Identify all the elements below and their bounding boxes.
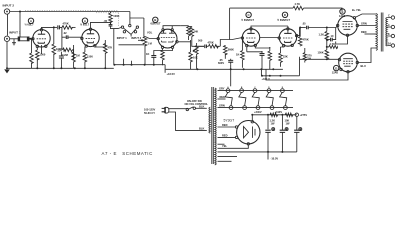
output terminals <box>391 16 394 19</box>
resistor R13 47K <box>95 40 107 68</box>
tube V4 12A6 output <box>337 16 359 37</box>
wire D' plate BLU <box>359 48 376 63</box>
svg-text:E: E <box>341 10 343 14</box>
svg-text:+275V: +275V <box>300 113 308 117</box>
node 310 <box>267 114 269 116</box>
svg-text:5Y3GT: 5Y3GT <box>224 119 235 123</box>
svg-text:25V 20: 25V 20 <box>58 49 67 53</box>
node plate A1 <box>53 26 55 28</box>
transformer stub y144 <box>218 143 225 145</box>
transformer bottom stub 2 <box>218 160 232 162</box>
wire tube E cathode <box>336 37 348 45</box>
svg-text:ON VOL CONTROL: ON VOL CONTROL <box>185 102 209 106</box>
svg-text:1K: 1K <box>146 52 149 56</box>
svg-text:470K: 470K <box>63 22 69 26</box>
svg-text:BLK: BLK <box>199 127 204 131</box>
svg-text:RED: RED <box>222 134 228 138</box>
wire plate A2 up <box>91 22 111 28</box>
svg-text:10K: 10K <box>193 56 198 60</box>
wire transformer to plate 2 <box>218 136 236 138</box>
heater unit B twisted pair <box>239 92 246 106</box>
resistor R16 <box>255 47 271 69</box>
svg-text:470K: 470K <box>303 38 309 42</box>
heater top rail <box>218 90 294 92</box>
coupling line to tube E <box>300 27 306 29</box>
svg-text:600V: 600V <box>218 61 224 65</box>
heater unit D twisted pair <box>266 92 273 106</box>
filter cap 1 <box>265 115 274 152</box>
svg-text:YEL: YEL <box>222 144 227 148</box>
wire junction to grid <box>30 38 33 40</box>
tube V5 12A6 output <box>338 53 358 73</box>
resistor R11 plate load 2 <box>189 27 194 40</box>
wire D plate top <box>287 26 289 28</box>
resistor R8 cathode A2 <box>83 47 87 69</box>
circled A <box>28 18 33 23</box>
svg-text:47K: 47K <box>108 46 113 50</box>
svg-text:4.7K: 4.7K <box>330 42 336 46</box>
wire plate tube A1 up <box>42 27 54 28</box>
wire plate resistor to coupling <box>192 40 204 47</box>
heater unit C top terminal <box>253 87 257 93</box>
feedback vertical <box>229 8 231 39</box>
circled E <box>340 9 345 14</box>
coupling cap C5 <box>197 45 208 49</box>
mid bus dots <box>113 64 115 66</box>
wire jack2 down <box>7 14 9 35</box>
node B+ <box>251 114 253 116</box>
hum pot <box>193 43 198 69</box>
phase out line to D' grid <box>297 27 300 35</box>
tube V1b triode <box>81 28 100 47</box>
svg-text:INPUT 2: INPUT 2 <box>131 36 142 40</box>
ground stub input 1 <box>12 39 16 45</box>
vertical B+ right <box>299 57 301 76</box>
heater unit E bottom terminal <box>284 106 288 110</box>
svg-text:GRN: GRN <box>361 21 367 25</box>
heater unit C bottom terminal <box>256 106 260 110</box>
wire plates V2 up <box>163 26 180 29</box>
wire B+ from rectifier <box>252 115 296 121</box>
wire CT RED <box>365 33 377 35</box>
heater unit A twisted pair <box>225 92 232 106</box>
resistor R9 plate load A2 <box>109 12 113 25</box>
right ground bus <box>166 68 283 70</box>
svg-text:1W: 1W <box>286 122 290 126</box>
heater unit A bottom terminal <box>229 106 233 110</box>
circled A second <box>82 18 87 23</box>
svg-text:1500: 1500 <box>40 53 46 57</box>
heater bottom rail <box>218 107 294 109</box>
capacitor C3 cathode bypass <box>42 45 64 68</box>
transformer bottom lead <box>218 155 238 157</box>
resistor 270 ohm <box>303 48 306 63</box>
filter resistor R20 <box>285 113 293 117</box>
ground return rail <box>218 151 297 153</box>
shield dashed line <box>25 9 119 11</box>
circled D second <box>334 65 339 70</box>
svg-text:BLU: BLU <box>361 64 366 68</box>
svg-text:1M: 1M <box>76 54 80 58</box>
node input2 junction <box>19 11 21 13</box>
svg-text:½ 6SL7: ½ 6SL7 <box>25 23 35 27</box>
wire to B plus line <box>113 29 115 65</box>
circled C <box>246 12 251 17</box>
heater unit C twisted pair <box>252 92 259 106</box>
svg-text:1.2K: 1.2K <box>319 33 325 37</box>
wire rectifier filament <box>218 145 249 148</box>
resistor R1 series input <box>10 37 31 42</box>
primary winding <box>376 14 377 51</box>
svg-text:100K: 100K <box>113 14 119 18</box>
rail dots <box>267 151 269 153</box>
right bus dots <box>196 68 198 70</box>
svg-text:RED: RED <box>222 123 228 127</box>
heater unit A top terminal <box>226 86 230 93</box>
svg-text:1W: 1W <box>307 57 311 61</box>
resistor R14 470K <box>208 45 220 49</box>
wire down to cap <box>61 27 63 49</box>
svg-text:500: 500 <box>198 39 203 43</box>
svg-text:½ 6SL7: ½ 6SL7 <box>80 23 90 27</box>
resistor R4 470K <box>62 26 76 30</box>
resistor R15 560K <box>224 45 228 58</box>
svg-text:-10.5V: -10.5V <box>271 157 279 161</box>
selector switch contacts <box>121 24 138 36</box>
B plus line 340 <box>261 69 299 76</box>
svg-text:INPUT 1: INPUT 1 <box>117 36 128 40</box>
resistor R3 plate load A1 <box>52 27 56 68</box>
filter resistor R19 <box>270 113 278 117</box>
switch feed wires and box <box>119 12 145 45</box>
cap C7 <box>247 47 265 70</box>
resistor R17 <box>279 47 284 67</box>
filter cap 2 <box>280 115 288 152</box>
tube V3a phase inverter <box>241 28 260 47</box>
heater unit E twisted pair <box>280 92 287 106</box>
core <box>212 87 214 164</box>
wire to D' grid <box>300 58 340 60</box>
power transformer T1 <box>209 87 216 165</box>
wire switch ground <box>124 59 132 65</box>
svg-text:1 M: 1 M <box>148 42 152 46</box>
wire input2 to switch <box>10 11 130 13</box>
feedback line top <box>230 7 293 9</box>
jack J1 input 1 <box>4 36 9 41</box>
capacitor C8 <box>307 26 338 30</box>
node mid <box>281 114 283 116</box>
svg-text:B+ YEL: B+ YEL <box>352 8 362 12</box>
filter cap 3 <box>294 117 302 152</box>
svg-text:.02: .02 <box>63 31 67 35</box>
wire primary top <box>355 14 376 18</box>
capacitor C1 coupling <box>54 25 62 29</box>
svg-text:470K: 470K <box>208 41 214 45</box>
capacitor C2 coupling to grid A2 <box>62 35 82 39</box>
svg-text:A7 - E SCHEMATIC: A7 - E SCHEMATIC <box>102 151 153 156</box>
wire transformer to plate 1 <box>218 126 236 128</box>
wire 2.2M to ground bus <box>72 50 74 60</box>
svg-text:RED: RED <box>361 30 367 34</box>
svg-text:½ 6SN7GT: ½ 6SN7GT <box>241 18 254 22</box>
wire down to heater chart <box>230 65 232 87</box>
resistor R12 <box>189 40 193 69</box>
svg-text:+340V: +340V <box>254 110 262 114</box>
svg-text:4.7K: 4.7K <box>295 2 301 6</box>
svg-text:1W: 1W <box>271 122 275 126</box>
svg-text:560K: 560K <box>228 48 234 52</box>
resistor R5 2.2M <box>63 48 73 52</box>
bias tap stub <box>267 152 269 160</box>
wire plug bottom <box>169 112 207 130</box>
bus junction dots <box>36 67 38 69</box>
core <box>381 13 383 52</box>
rectifier tube V6 5Y3GT <box>235 121 260 146</box>
grid bias network tubes E D' <box>325 27 337 60</box>
svg-text:24K: 24K <box>194 30 199 34</box>
node grid junction tube A1 <box>29 38 31 40</box>
svg-text:150K: 150K <box>318 51 324 55</box>
heater unit D bottom terminal <box>270 106 274 110</box>
transformer stub y99 <box>218 98 226 100</box>
resistor R7 <box>72 45 76 68</box>
circled B <box>153 17 158 22</box>
svg-text:BLK: BLK <box>199 104 204 108</box>
svg-text:VOL: VOL <box>147 31 153 35</box>
svg-text:1K: 1K <box>236 53 239 57</box>
svg-text:105-125V: 105-125V <box>144 107 156 111</box>
wire tube B right pin <box>178 41 191 43</box>
shield dashed box <box>96 13 119 27</box>
svg-text:1500: 1500 <box>87 55 93 59</box>
svg-text:INPUT 2: INPUT 2 <box>3 4 15 8</box>
volume control pot <box>138 37 158 65</box>
svg-text:6SN7GT: 6SN7GT <box>151 22 162 26</box>
svg-text:GRN: GRN <box>219 104 225 108</box>
svg-text:INPUT 1: INPUT 1 <box>9 31 21 35</box>
heater unit B bottom terminal <box>243 106 247 110</box>
svg-text:.05: .05 <box>104 19 108 23</box>
resistor R2 grid leak <box>30 39 34 69</box>
heater unit B top terminal <box>240 87 244 93</box>
wire D' cathode down <box>266 69 348 80</box>
circled D <box>282 12 287 17</box>
svg-text:RED: RED <box>220 95 226 99</box>
jack J2 input 2 <box>4 9 9 14</box>
svg-text:50-60 CY: 50-60 CY <box>144 111 155 115</box>
svg-text:GRY: GRY <box>219 87 225 91</box>
svg-text:22K: 22K <box>283 55 288 59</box>
tube V1a triode <box>32 29 50 48</box>
tube V2 6SN7 dual triode <box>157 29 178 49</box>
output transformer T2 <box>376 13 387 52</box>
terminal B+ out <box>295 113 298 116</box>
wire E plate GRN <box>359 25 376 27</box>
ground bus left <box>7 67 114 69</box>
secondary winding <box>215 88 216 165</box>
ground symbol <box>4 42 10 74</box>
svg-text:C: C <box>388 14 390 18</box>
cathode bypass cap V2 <box>151 49 172 65</box>
on off switch <box>186 107 207 111</box>
resistor R10 plate load <box>180 26 190 40</box>
node plate A2 <box>110 21 112 23</box>
svg-text:+16.5V: +16.5V <box>167 72 176 76</box>
wire plug top to switch <box>169 108 188 110</box>
wire plate C to D <box>251 26 288 38</box>
heater unit D top terminal <box>267 87 271 93</box>
heater unit E top terminal <box>281 87 285 93</box>
tube V3b phase inverter <box>278 28 298 47</box>
resistor R18 470K <box>298 27 302 47</box>
mid ground bus <box>114 64 165 66</box>
wire node down <box>19 12 21 38</box>
svg-text:12A6: 12A6 <box>332 70 339 74</box>
svg-text:½ 6SN7GT: ½ 6SN7GT <box>277 18 290 22</box>
capacitor C4 .05 to switch <box>109 22 122 28</box>
svg-text:+310V: +310V <box>275 110 283 114</box>
dots on B+ <box>261 75 263 77</box>
primary winding <box>209 107 210 133</box>
AC plug <box>162 107 169 113</box>
svg-text:.05: .05 <box>302 22 306 26</box>
bias stub <box>164 65 166 73</box>
secondary taps <box>387 18 391 46</box>
cathode resistors C D <box>241 39 245 68</box>
capacitor C6 .05 600V <box>228 59 233 65</box>
resistor R6 cathode A1 <box>36 48 40 69</box>
feedback resistor 4.7K <box>293 6 342 11</box>
secondary winding <box>386 18 387 47</box>
cathode resistor V2 <box>161 49 165 66</box>
wire to tube C grid <box>220 38 242 47</box>
